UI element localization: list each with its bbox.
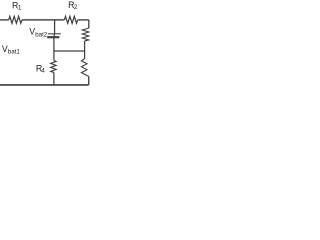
svg-text:1: 1: [18, 4, 22, 11]
wire mid junction down to R4: [53, 51, 55, 60]
wire top-right segment: [78, 19, 89, 21]
wire right rail upper corner down: [88, 20, 90, 28]
resistor upper-right (between top wire and mid line): [82, 28, 89, 41]
battery Vbat2: [47, 34, 61, 37]
resistor lower-right (between mid line and bottom wire): [81, 59, 88, 77]
label Vbat1: [2, 44, 21, 56]
svg-text:4: 4: [41, 68, 45, 75]
wire R4 to bottom wire: [53, 72, 55, 85]
wire battery bottom lead to mid junction: [53, 37, 55, 51]
label Vbat2: [29, 27, 48, 39]
wire battery Vbat2 top lead from node on top wire: [54, 20, 56, 34]
svg-text:2: 2: [74, 4, 78, 11]
svg-text:bat2: bat2: [35, 31, 48, 38]
label R2: [68, 0, 78, 11]
wire top-middle segment: [22, 19, 64, 21]
wire top-left segment: [0, 19, 9, 21]
wire bottom: [0, 84, 89, 86]
resistor R4: [51, 60, 56, 72]
wire battery inter-plate lead: [53, 34, 55, 37]
wire upper-right resistor lead to mid line: [84, 41, 86, 51]
wire mid horizontal: [54, 50, 85, 52]
wire right rail lower corner: [88, 76, 90, 85]
label R1: [12, 0, 22, 11]
wire lower-right resistor top lead: [84, 51, 86, 59]
resistor R2: [64, 16, 77, 23]
resistor R1: [9, 16, 22, 23]
svg-text:bat1: bat1: [8, 49, 21, 56]
label R4: [36, 64, 45, 75]
